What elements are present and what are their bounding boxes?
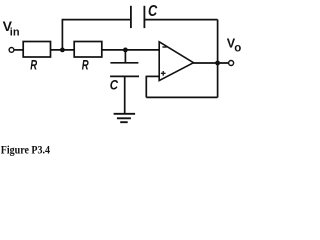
resistor R2: [74, 42, 102, 58]
wire op-amp output to Vo terminal: [193, 62, 228, 64]
label Vin: [3, 18, 20, 39]
wire feedback bottom run: [146, 96, 217, 98]
wire right vertical down to output node: [217, 20, 219, 63]
wire capacitor C2 to ground: [124, 76, 126, 113]
wire capacitor C1 to output node: [144, 19, 217, 21]
ground: [114, 114, 136, 122]
wire R1 to R2: [51, 49, 75, 51]
wire op-amp non-inverting input stub: [146, 75, 159, 77]
node Vo output terminal: [229, 61, 234, 66]
svg-text:C: C: [148, 3, 158, 20]
label Vo: [227, 36, 241, 54]
wire node B down to capacitor C2: [124, 50, 126, 63]
pin plus sign non-inverting input: [161, 72, 166, 74]
wire node A up to feedback branch: [61, 20, 63, 50]
wire feedback right vertical to output node: [217, 63, 219, 97]
wire R2 to op-amp inverting input: [102, 49, 159, 51]
capacitor C1 feedback (label C): [131, 6, 145, 28]
node output junction dot: [215, 61, 220, 66]
wire feedback left vertical: [145, 76, 147, 98]
svg-text:R: R: [30, 57, 37, 73]
capacitor C2 shunt (label C): [110, 63, 139, 77]
svg-text:Figure P3.4: Figure P3.4: [1, 143, 50, 157]
resistor R1: [23, 42, 50, 58]
svg-text:in: in: [10, 27, 20, 39]
node A junction dot: [60, 48, 65, 53]
op-amp U1: [159, 42, 193, 81]
node Vin input terminal: [9, 48, 14, 53]
wire input terminal to R1: [14, 49, 23, 51]
node B junction dot: [123, 48, 128, 53]
svg-text:C: C: [110, 77, 119, 92]
wire top run node A to capacitor C1: [62, 19, 131, 21]
pin minus sign inverting input: [162, 46, 166, 48]
svg-text:o: o: [234, 42, 241, 54]
svg-text:R: R: [82, 57, 89, 73]
